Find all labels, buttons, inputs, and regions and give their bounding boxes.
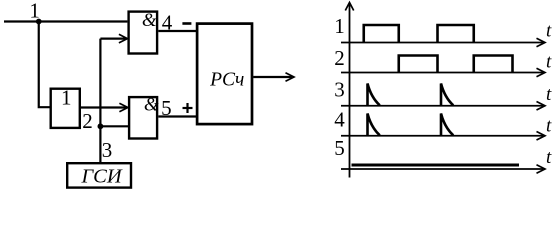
svg-text:4: 4 bbox=[162, 11, 173, 35]
svg-text:3: 3 bbox=[102, 138, 113, 162]
svg-text:1: 1 bbox=[334, 14, 345, 38]
svg-text:1: 1 bbox=[29, 0, 40, 23]
svg-text:ГСИ: ГСИ bbox=[81, 166, 123, 188]
svg-text:t: t bbox=[546, 52, 552, 73]
svg-text:5: 5 bbox=[334, 136, 345, 160]
svg-text:5: 5 bbox=[161, 96, 172, 120]
svg-text:2: 2 bbox=[82, 109, 93, 133]
svg-text:t: t bbox=[546, 115, 552, 136]
svg-text:3: 3 bbox=[334, 78, 345, 102]
svg-text:4: 4 bbox=[334, 108, 345, 132]
svg-text:РСч: РСч bbox=[209, 70, 244, 91]
svg-text:t: t bbox=[546, 147, 552, 168]
svg-text:&: & bbox=[142, 10, 157, 31]
svg-text:1: 1 bbox=[61, 86, 72, 110]
svg-text:2: 2 bbox=[334, 46, 345, 70]
svg-text:&: & bbox=[144, 95, 159, 116]
svg-text:t: t bbox=[546, 21, 552, 42]
svg-text:t: t bbox=[546, 84, 552, 105]
